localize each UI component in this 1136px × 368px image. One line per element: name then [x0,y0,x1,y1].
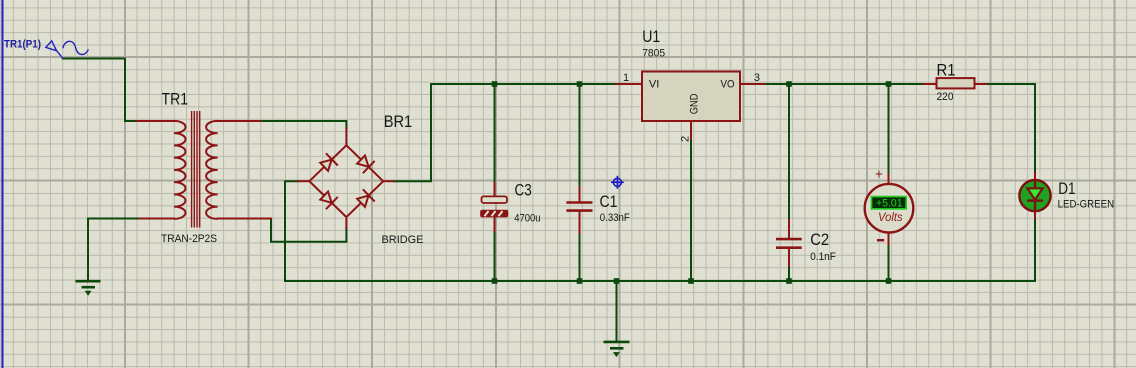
diode D-bottomleft [318,189,338,209]
junction: C2 bottom on ground rail [786,278,792,284]
bridge BR1 diamond [309,145,383,217]
LED D1 [1019,180,1050,211]
svg-text:GND: GND [688,94,700,115]
svg-text:TR1: TR1 [162,90,189,109]
junction: C1 top on +V rail [577,81,583,87]
svg-text:+: + [875,167,883,182]
origin marker (blue crosshair) [611,176,624,189]
pin: transformer primary top [137,120,175,122]
svg-text:D1: D1 [1058,179,1075,198]
wire: R1 to LED column [986,84,1035,173]
diode D-topleft [318,153,338,173]
svg-text:U1: U1 [642,27,660,46]
junction: voltmeter bottom on ground rail [886,278,892,284]
wire: C3 column [494,84,496,281]
pin: bridge bottom stub [345,217,347,228]
pin: bridge right stub [383,180,394,182]
wire: bottom rail [285,280,1035,282]
left winding [174,121,186,219]
wire: secondary top to bridge top [261,121,347,129]
junction: ground symbol on ground rail [614,278,620,284]
transformer TR1 [174,111,218,228]
pin: C2 top / bottom [788,220,790,238]
wire: C2 column [788,84,790,281]
capacitor C2 [776,239,802,248]
pin: bridge left stub [298,180,309,182]
svg-text:220: 220 [937,91,954,103]
voltmeter body [865,184,914,233]
svg-text:C1: C1 [600,192,618,211]
right winding [206,121,218,219]
pin: C3 top / bottom [494,183,496,197]
svg-text:BR1: BR1 [384,112,413,131]
wire: voltmeter column [888,84,890,281]
terminal TR1(P1) arrow + sine (blue) [46,41,89,58]
resistor R1 box [937,78,975,88]
svg-text:4700u: 4700u [514,213,540,225]
svg-text:0.33nF: 0.33nF [600,212,630,224]
svg-text:LED-GREEN: LED-GREEN [1058,199,1115,211]
junction: C3 bottom on ground rail [492,278,498,284]
wire: primary bottom to ground corner [88,219,140,281]
pin: U1 VO [740,83,764,85]
regulator U1 box [642,72,740,122]
svg-text:VI: VI [649,79,660,91]
junction: C3 top on +V rail [492,81,498,87]
junction: U1 GND on ground rail [688,278,694,284]
svg-text:+5.01: +5.01 [876,197,903,209]
svg-text:7805: 7805 [642,48,665,60]
pin: C1 top / bottom [579,187,581,202]
diode D-bottomright [355,189,375,209]
svg-text:R1: R1 [937,60,956,79]
wire: VO to R1 [764,83,923,85]
pin: transformer secondary top [218,120,261,122]
pin: U1 VI [616,83,642,85]
pin: bridge top stub [345,129,347,146]
svg-text:Volts: Volts [878,210,903,224]
core lines [192,111,200,228]
pin: transformer secondary bottom [218,218,271,220]
wire: C1 column [579,84,581,281]
capacitor C1 [566,203,592,211]
junction: C2 top on output rail [786,81,792,87]
svg-text:0.1nF: 0.1nF [810,251,836,263]
diode D-topright [355,153,375,173]
svg-text:TRAN-2P2S: TRAN-2P2S [161,233,217,245]
junction: C1 bottom on ground rail [577,278,583,284]
svg-text:3: 3 [754,72,760,84]
wire: U1 GND column [690,139,692,281]
pin: U1 GND [690,121,692,139]
svg-text:1: 1 [623,72,629,84]
pin: R1 left / right [924,83,937,85]
wire: secondary bottom jog to bridge bottom [271,219,346,242]
ground (output rail) [604,281,630,356]
svg-text:2: 2 [680,136,692,142]
voltmeter minus [877,239,884,241]
capacitor C3 (electrolytic) [481,196,508,217]
svg-text:TR1(P1): TR1(P1) [4,38,41,50]
svg-text:C3: C3 [515,181,532,200]
wire: bridge right node up to top rail [394,84,616,181]
sheet border (blue) [2,0,4,368]
svg-text:C2: C2 [810,230,829,249]
svg-text:BRIDGE: BRIDGE [382,234,424,246]
svg-text:VO: VO [721,79,735,91]
pin: transformer primary bottom [140,218,174,220]
pin: voltmeter top / bottom [888,175,890,185]
pin: LED top / bottom [1034,173,1036,181]
junction: voltmeter top on output rail [886,81,892,87]
wire: LED bottom to rail [1034,219,1036,281]
ground (primary side) [76,281,101,295]
wire: bridge left node down to bottom rail [285,181,298,281]
voltmeter LCD [872,197,907,209]
wire: AC terminal to corner [63,59,137,122]
